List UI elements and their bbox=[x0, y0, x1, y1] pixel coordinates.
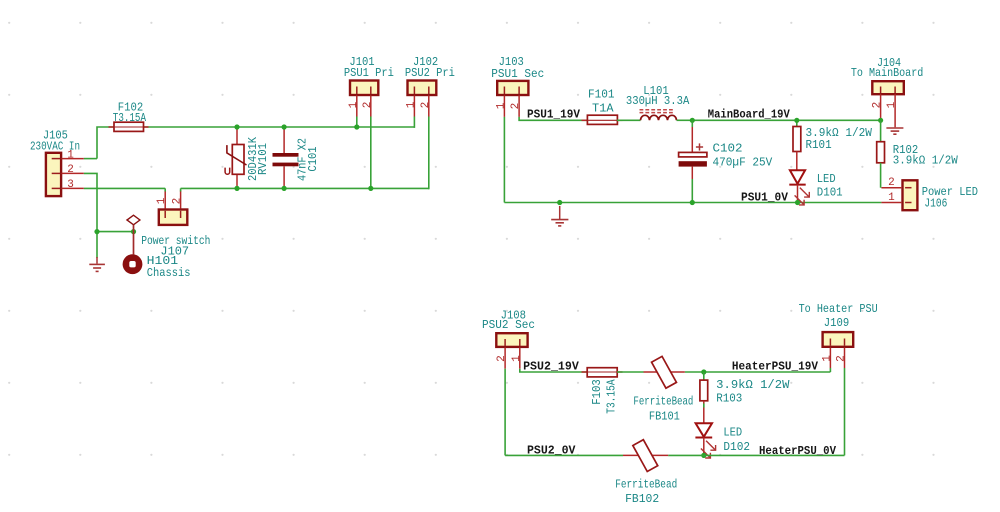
net label PSU2_19V bbox=[523, 359, 579, 373]
connector J103 bbox=[497, 81, 528, 117]
label T1A bbox=[592, 102, 614, 116]
label R102 bbox=[893, 143, 919, 157]
wire HeaterPSU_19V bbox=[704, 371, 830, 373]
pin numbers J109 bbox=[821, 355, 847, 362]
svg-text:470µF 25V: 470µF 25V bbox=[713, 156, 774, 170]
pin numbers J107 bbox=[156, 197, 183, 204]
ground GND3 bbox=[886, 128, 903, 134]
wire top bus L bbox=[97, 127, 114, 159]
label Chassis bbox=[147, 266, 191, 280]
label 20D431K bbox=[246, 136, 260, 181]
label T3.15A vertical bbox=[605, 379, 619, 414]
svg-text:1: 1 bbox=[886, 101, 898, 108]
svg-text:C101: C101 bbox=[306, 146, 320, 171]
label J102 bbox=[413, 55, 438, 69]
wire switch pin2 bbox=[180, 188, 182, 191]
svg-text:LED: LED bbox=[723, 426, 742, 440]
net label PSU2_0V bbox=[527, 444, 576, 458]
svg-text:FerriteBead: FerriteBead bbox=[615, 478, 677, 492]
svg-text:T1A: T1A bbox=[592, 102, 614, 116]
label L101 bbox=[643, 84, 668, 98]
wire J109 pin2 down bbox=[844, 368, 846, 455]
svg-text:HeaterPSU_0V: HeaterPSU_0V bbox=[759, 444, 837, 458]
label FerriteBead FB101 bbox=[633, 395, 693, 409]
svg-text:FB102: FB102 bbox=[625, 492, 659, 506]
label Power LED bbox=[922, 185, 978, 199]
wire chassis tie bbox=[97, 231, 134, 233]
svg-text:1: 1 bbox=[405, 101, 417, 108]
wire MainBoard_19V bus bbox=[692, 119, 880, 121]
net label PSU1_19V bbox=[527, 107, 581, 121]
ferrite bead FB102 bbox=[633, 440, 658, 472]
svg-text:3: 3 bbox=[67, 179, 74, 191]
switch J107 bbox=[159, 191, 188, 225]
lead FB101 bbox=[644, 371, 685, 373]
label D101 bbox=[817, 186, 843, 200]
connector J106 bbox=[881, 180, 917, 210]
svg-text:F101: F101 bbox=[588, 87, 615, 101]
junction ground PSU1 bbox=[557, 200, 562, 205]
fuse F101 bbox=[582, 115, 623, 124]
capacitor C102 bbox=[679, 120, 707, 202]
svg-text:T3.15A: T3.15A bbox=[605, 379, 619, 414]
label J109 bbox=[824, 316, 849, 330]
svg-text:3.9kΩ 1/2W: 3.9kΩ 1/2W bbox=[893, 154, 959, 168]
svg-text:1: 1 bbox=[348, 101, 360, 108]
wire fuse to inductor bbox=[617, 119, 641, 121]
label J103 bbox=[499, 55, 524, 69]
wire J105 pin2 to ground bbox=[84, 173, 97, 258]
svg-text:Chassis: Chassis bbox=[147, 266, 191, 280]
label 3.9k R101 bbox=[806, 126, 873, 140]
svg-text:To MainBoard: To MainBoard bbox=[851, 66, 923, 80]
label F103 bbox=[590, 379, 604, 404]
junction RV101 top bbox=[234, 124, 239, 129]
svg-text:HeaterPSU_19V: HeaterPSU_19V bbox=[732, 359, 819, 373]
svg-text:PSU1_0V: PSU1_0V bbox=[741, 191, 789, 205]
pin numbers J108 bbox=[496, 355, 523, 362]
label F101 bbox=[588, 87, 615, 101]
svg-text:D102: D102 bbox=[723, 440, 750, 454]
wire J108 pin1 to fuse bbox=[520, 369, 587, 372]
label R103 bbox=[716, 391, 742, 405]
label 330uH 3.3A bbox=[626, 94, 690, 108]
svg-text:2: 2 bbox=[496, 355, 508, 362]
label J105 bbox=[43, 129, 68, 143]
junction R101 top bbox=[794, 118, 799, 123]
lead FB102 bbox=[623, 454, 668, 456]
junction J101 pin2 bbox=[368, 186, 373, 191]
junction R103 top bbox=[701, 369, 706, 374]
wire J105 pin1 bbox=[84, 158, 97, 160]
svg-text:1: 1 bbox=[821, 355, 833, 362]
svg-text:3.9kΩ 1/2W: 3.9kΩ 1/2W bbox=[716, 378, 790, 392]
wire J102 pin1 bbox=[413, 117, 415, 128]
svg-text:PSU1_19V: PSU1_19V bbox=[527, 107, 581, 121]
net label HeaterPSU_19V bbox=[732, 359, 819, 373]
svg-text:T3.15A: T3.15A bbox=[113, 111, 147, 125]
svg-text:R101: R101 bbox=[806, 138, 832, 152]
svg-text:J106: J106 bbox=[924, 197, 947, 211]
label PSU2 Sec bbox=[482, 318, 535, 332]
net label HeaterPSU_0V bbox=[759, 444, 837, 458]
fuse F103 bbox=[582, 368, 623, 377]
label Power switch bbox=[141, 234, 210, 248]
junction J104 pin2 bbox=[878, 118, 883, 123]
junction D101 bottom bbox=[795, 200, 800, 205]
label C101 bbox=[306, 146, 320, 171]
label LED D102 bbox=[723, 426, 742, 440]
label J107 bbox=[160, 244, 189, 258]
svg-text:2: 2 bbox=[362, 102, 374, 109]
label PSU2 Pri bbox=[405, 66, 455, 80]
pin numbers J104 bbox=[872, 101, 899, 108]
svg-text:C102: C102 bbox=[713, 142, 743, 156]
label R101 bbox=[806, 138, 832, 152]
label T3.15A bbox=[113, 111, 147, 125]
wire PSU2_0V bus bbox=[505, 454, 844, 456]
junction at ground drop bbox=[94, 229, 99, 234]
svg-text:2: 2 bbox=[872, 102, 884, 109]
connector J101 bbox=[350, 81, 378, 117]
svg-text:2: 2 bbox=[172, 198, 184, 205]
wire J108 pin2 down bbox=[504, 369, 506, 456]
wire J101 pin2 bbox=[370, 117, 372, 189]
label PSU1 Sec bbox=[491, 67, 544, 81]
svg-text:R103: R103 bbox=[716, 391, 742, 405]
label J106 bbox=[924, 197, 947, 211]
svg-text:RV101: RV101 bbox=[256, 143, 270, 175]
junction C101 bottom bbox=[282, 186, 287, 191]
svg-text:PSU2 Sec: PSU2 Sec bbox=[482, 318, 535, 332]
svg-text:2: 2 bbox=[420, 102, 432, 109]
label RV101 bbox=[256, 143, 270, 175]
svg-text:MainBoard_19V: MainBoard_19V bbox=[708, 107, 791, 121]
pin numbers J102 bbox=[405, 101, 431, 108]
junction C102 bottom bbox=[690, 200, 695, 205]
svg-text:PSU2 Pri: PSU2 Pri bbox=[405, 66, 455, 80]
svg-text:F103: F103 bbox=[590, 379, 604, 404]
pin numbers J105 bbox=[67, 149, 74, 191]
junction J101 pin1 bbox=[354, 124, 359, 129]
wire inductor to junction bbox=[677, 119, 693, 121]
junction RV101 bottom bbox=[234, 186, 239, 191]
net label PSU1_0V bbox=[741, 191, 789, 205]
svg-text:2: 2 bbox=[888, 177, 895, 189]
pin numbers J106 bbox=[888, 177, 895, 204]
label C102 bbox=[713, 142, 743, 156]
svg-text:PSU2_19V: PSU2_19V bbox=[523, 359, 579, 373]
svg-text:2: 2 bbox=[836, 355, 848, 362]
label 3.9k R103 bbox=[716, 378, 790, 392]
LED D101 bbox=[789, 170, 809, 205]
svg-text:FerriteBead: FerriteBead bbox=[633, 395, 693, 409]
svg-text:330µH 3.3A: 330µH 3.3A bbox=[626, 94, 690, 108]
label H101 bbox=[147, 254, 179, 268]
net label MainBoard_19V bbox=[708, 107, 791, 121]
label FB102 bbox=[625, 492, 659, 506]
pin numbers J103 bbox=[495, 102, 522, 109]
connector J105 bbox=[46, 153, 84, 196]
label LED bbox=[817, 172, 836, 186]
svg-text:To Heater PSU: To Heater PSU bbox=[799, 302, 878, 316]
pin numbers J101 bbox=[348, 101, 374, 108]
net tie diamond bbox=[127, 215, 140, 254]
svg-text:LED: LED bbox=[817, 172, 836, 186]
svg-text:J109: J109 bbox=[824, 316, 849, 330]
label 3.9k R102 bbox=[893, 154, 959, 168]
svg-text:PSU1 Sec: PSU1 Sec bbox=[491, 67, 544, 81]
ground GND1 bbox=[89, 257, 105, 271]
connector J102 bbox=[408, 81, 437, 117]
junction L101 out bbox=[690, 118, 695, 123]
wire J102 pin2 bbox=[428, 117, 430, 190]
mounting hole H101 bbox=[123, 254, 143, 274]
svg-text:230VAC In: 230VAC In bbox=[30, 140, 80, 154]
wire fuse to bead FB101 bbox=[617, 371, 644, 373]
wire switch pin1 bbox=[164, 188, 166, 191]
connector J104 bbox=[872, 81, 904, 127]
wire PSU1_0V bus bbox=[504, 202, 881, 204]
svg-text:1: 1 bbox=[511, 355, 523, 362]
label 230VAC In bbox=[30, 140, 80, 154]
label D102 bbox=[723, 440, 750, 454]
ferrite bead FB101 bbox=[652, 356, 677, 388]
varistor RV101 bbox=[225, 127, 246, 188]
label J108 bbox=[501, 308, 526, 322]
connector J108 bbox=[496, 333, 527, 369]
wire bead FB101 to junction bbox=[685, 371, 704, 373]
label To MainBoard bbox=[851, 66, 923, 80]
svg-text:2: 2 bbox=[67, 164, 74, 176]
svg-text:FB101: FB101 bbox=[649, 410, 680, 424]
fuse F102 bbox=[109, 122, 149, 131]
ground GND2 bbox=[551, 206, 568, 226]
svg-text:PSU2_0V: PSU2_0V bbox=[527, 444, 576, 458]
capacitor C101 bbox=[273, 127, 299, 188]
label FerriteBead FB102 bbox=[615, 478, 677, 492]
label FB101 bbox=[649, 410, 680, 424]
junction C101 top bbox=[282, 124, 287, 129]
wire J105 pin3 to switch bbox=[84, 187, 165, 189]
inductor L101 bbox=[640, 110, 677, 121]
junction at chassis bbox=[131, 229, 136, 234]
svg-text:1: 1 bbox=[156, 197, 168, 204]
wire J103 pin1 down bbox=[503, 117, 505, 203]
label PSU1 Pri bbox=[344, 66, 394, 80]
svg-text:1: 1 bbox=[888, 192, 895, 204]
label 47nF X2 bbox=[296, 138, 310, 181]
wire J103 pin2 to fuse bbox=[519, 117, 587, 120]
resistor R102 bbox=[877, 120, 885, 187]
label J101 bbox=[349, 55, 374, 69]
LED D102 bbox=[695, 423, 715, 458]
label To Heater PSU bbox=[799, 302, 878, 316]
resistor R103 bbox=[700, 372, 708, 423]
svg-text:D101: D101 bbox=[817, 186, 843, 200]
label F102 bbox=[118, 101, 143, 115]
label 470uF 25V bbox=[713, 156, 774, 170]
connector J109 bbox=[823, 332, 854, 368]
wire J101 pin1 bbox=[356, 117, 358, 128]
wire bottom bus bbox=[181, 187, 429, 189]
svg-text:2: 2 bbox=[510, 103, 522, 110]
wire J109 pin1 bbox=[829, 368, 831, 372]
svg-text:PSU1 Pri: PSU1 Pri bbox=[344, 66, 394, 80]
wire top bus R bbox=[143, 126, 414, 128]
label J104 bbox=[877, 56, 901, 70]
svg-text:1: 1 bbox=[495, 102, 507, 109]
resistor R101 bbox=[793, 120, 801, 170]
junction D102 bottom bbox=[701, 453, 706, 458]
